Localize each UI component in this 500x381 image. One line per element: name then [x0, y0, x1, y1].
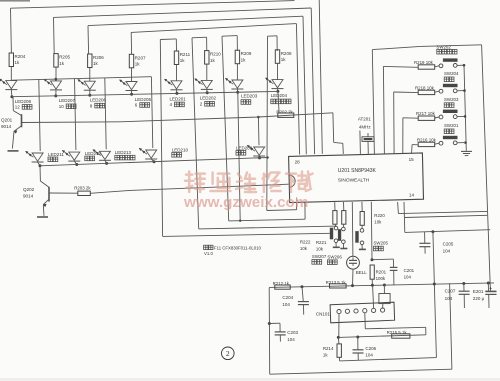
svg-text:LED203: LED203 — [241, 94, 258, 99]
svg-text:104: 104 — [443, 249, 451, 254]
svg-text:C203: C203 — [287, 330, 298, 335]
svg-text:AT201: AT201 — [358, 117, 371, 122]
svg-text:SINOWEALTH: SINOWEALTH — [338, 177, 370, 183]
svg-text:15: 15 — [409, 157, 415, 162]
svg-text:SW203: SW203 — [444, 97, 459, 102]
svg-text:R205: R205 — [59, 55, 70, 60]
svg-text:SW206: SW206 — [327, 255, 342, 260]
svg-text:R212 1k: R212 1k — [273, 281, 290, 286]
svg-text:10k: 10k — [300, 246, 308, 251]
svg-text:9014: 9014 — [1, 124, 12, 129]
svg-text:10: 10 — [59, 104, 65, 109]
svg-text:R213 5.1k: R213 5.1k — [326, 280, 347, 285]
svg-text:104: 104 — [282, 302, 290, 307]
svg-text:C201: C201 — [404, 268, 415, 273]
svg-text:LED201: LED201 — [170, 96, 187, 101]
svg-text:CN101: CN101 — [316, 311, 331, 316]
svg-text:LED212: LED212 — [85, 151, 102, 156]
svg-text:R201: R201 — [376, 269, 387, 274]
svg-text:R207: R207 — [135, 55, 146, 60]
svg-text:www.gzweix.com: www.gzweix.com — [183, 194, 308, 211]
svg-text:C204: C204 — [282, 295, 293, 300]
svg-text:10k: 10k — [316, 246, 324, 251]
svg-text:100k: 100k — [376, 276, 386, 281]
svg-text:1k: 1k — [210, 58, 216, 63]
svg-text:R220: R220 — [374, 213, 385, 218]
svg-text:C205: C205 — [443, 241, 454, 246]
svg-text:R211: R211 — [180, 52, 191, 57]
svg-text:1k: 1k — [93, 61, 99, 66]
svg-text:Q201: Q201 — [1, 117, 13, 122]
svg-text:LED209: LED209 — [236, 145, 253, 150]
svg-text:R210: R210 — [210, 52, 221, 57]
svg-text:U201 SN8P943K: U201 SN8P943K — [338, 168, 377, 174]
svg-text:R204: R204 — [15, 54, 26, 59]
svg-text:1k: 1k — [59, 61, 65, 66]
svg-text:R219 10k: R219 10k — [414, 60, 434, 65]
svg-text:104: 104 — [404, 274, 412, 279]
svg-text:1k: 1k — [241, 57, 247, 62]
svg-text:E201: E201 — [473, 289, 484, 294]
svg-text:R218 10k: R218 10k — [415, 85, 435, 90]
svg-text:LED206: LED206 — [90, 98, 107, 103]
svg-text:SW201: SW201 — [444, 123, 459, 128]
svg-text:4MHz: 4MHz — [359, 125, 372, 130]
svg-text:R208: R208 — [281, 51, 292, 56]
svg-text:1k: 1k — [180, 58, 186, 63]
svg-text:SW205: SW205 — [374, 241, 389, 246]
svg-text:2: 2 — [226, 349, 230, 358]
svg-text:R203 2k: R203 2k — [74, 185, 91, 190]
svg-text:220 μ: 220 μ — [473, 296, 485, 301]
svg-text:28: 28 — [295, 159, 301, 164]
svg-text:9014: 9014 — [23, 194, 34, 199]
svg-text:LED207: LED207 — [59, 98, 76, 103]
svg-text:BELL: BELL — [356, 270, 368, 275]
svg-text:R209: R209 — [241, 51, 252, 56]
svg-text:R216 10k: R216 10k — [417, 137, 437, 142]
svg-text:104: 104 — [445, 296, 453, 301]
svg-text:R206: R206 — [93, 55, 104, 60]
svg-text:1k: 1k — [135, 62, 141, 67]
svg-text:LED210: LED210 — [172, 147, 189, 152]
svg-text:104: 104 — [365, 352, 373, 357]
svg-text:1k: 1k — [15, 60, 21, 65]
svg-text:LED208: LED208 — [15, 99, 32, 104]
svg-text:R222: R222 — [300, 239, 311, 244]
svg-text:C207: C207 — [445, 289, 456, 294]
svg-text:V1.0: V1.0 — [204, 251, 213, 256]
svg-text:LED202: LED202 — [200, 96, 217, 101]
svg-text:LED213: LED213 — [115, 150, 132, 155]
svg-text:R221: R221 — [316, 240, 327, 245]
svg-text:1k: 1k — [281, 57, 287, 62]
svg-text:+: + — [489, 287, 492, 292]
svg-text:R214: R214 — [323, 346, 334, 351]
svg-text:LED211: LED211 — [48, 152, 64, 157]
svg-text:10k: 10k — [374, 220, 382, 225]
svg-text:SW207: SW207 — [312, 254, 327, 259]
svg-text:C206: C206 — [365, 346, 376, 351]
svg-text:LED204: LED204 — [271, 93, 288, 98]
svg-text:Q202: Q202 — [23, 187, 35, 192]
svg-text:12: 12 — [15, 105, 21, 110]
svg-text:F11 CFX830F011-0L010: F11 CFX830F011-0L010 — [214, 245, 262, 250]
svg-text:14: 14 — [409, 193, 415, 198]
svg-text:R215 5.1k: R215 5.1k — [387, 330, 408, 335]
svg-text:SW202: SW202 — [436, 44, 451, 49]
svg-text:1k: 1k — [323, 352, 328, 357]
svg-text:LED205: LED205 — [135, 97, 152, 102]
svg-text:R217 10k: R217 10k — [416, 111, 436, 116]
svg-text:SW204: SW204 — [444, 71, 459, 76]
svg-text:104: 104 — [287, 337, 295, 342]
